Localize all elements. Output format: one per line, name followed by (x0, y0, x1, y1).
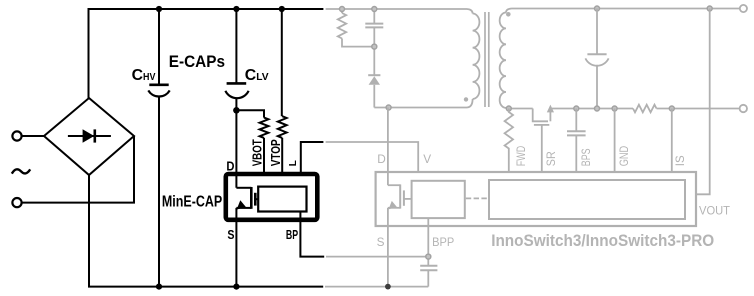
svg-text:VBOT: VBOT (250, 139, 265, 166)
svg-text:E-CAPs: E-CAPs (169, 52, 225, 71)
wire clamp R bottom (342, 39, 374, 47)
wire BP to BPP continuation (gray) (326, 256, 428, 258)
node drain junction ring (386, 105, 391, 110)
capacitor C_BPS top lead (575, 109, 577, 132)
capacitor C_BPS bottom lead (575, 135, 577, 172)
wire BP pin (black part) (300, 212, 324, 257)
bridge diode cathode bar (94, 129, 97, 142)
wire primary bottom line (374, 107, 467, 109)
capacitor C_HV bottom lead (158, 97, 160, 287)
capacitor C_OUT top lead (596, 9, 598, 55)
resistor R_FWD (505, 109, 513, 173)
capacitor clamp C bottom lead (373, 27, 375, 75)
node BPS junction ring (574, 106, 579, 111)
MinE-CAP control block (258, 187, 306, 212)
transistor Q2 source lead (549, 109, 551, 122)
transformer T1 secondary winding (506, 9, 512, 13)
transistor Q3 InnoSwitch internal MOSFET drain lead (388, 184, 400, 186)
output terminal - (740, 105, 747, 112)
capacitor C_OUT bottom lead (596, 65, 598, 109)
svg-text:D: D (377, 152, 386, 166)
diode clamp cathode bar (368, 74, 380, 76)
diode clamp triangle (369, 76, 380, 85)
svg-text:VTOP: VTOP (268, 139, 283, 166)
node C_LV bottom junction (233, 107, 240, 114)
svg-text:InnoSwitch3/InnoSwitch3-PRO: InnoSwitch3/InnoSwitch3-PRO (491, 231, 714, 250)
resistor R_IS (current sense) (633, 105, 657, 113)
wire top rail gray continuation (326, 8, 467, 10)
wire VTOP from top rail (281, 9, 283, 116)
bridge rectifier BR1 diamond (44, 98, 134, 175)
transistor Q3 source lead (388, 207, 400, 209)
transformer T1 core (484, 12, 486, 107)
transistor Q3 gate connection (404, 198, 412, 200)
resistor VBOT (260, 118, 269, 138)
resistor VTOP (278, 116, 287, 138)
transistor Q3 gate bar (403, 190, 405, 205)
wire secondary bottom rail segment 3 (657, 108, 740, 110)
node clamp R top ring (340, 7, 345, 12)
wire S pin to bottom rail (235, 208, 237, 287)
transistor Q1 source lead (236, 207, 251, 209)
capacitor clamp C plates (365, 23, 383, 25)
node clamp RC bottom ring (372, 44, 377, 49)
svg-text:MinE-CAP: MinE-CAP (162, 194, 222, 211)
transistor Q2 source arrow (547, 105, 554, 113)
transistor Q1 gate bar (254, 193, 257, 206)
wire L pin to drain node (black part) (301, 142, 324, 174)
AC input terminal 2 (12, 198, 21, 207)
node S / bottom rail junction (385, 284, 391, 290)
node top-rail / C_HV junction (156, 6, 162, 12)
node IS junction ring (669, 106, 674, 111)
wire IS pin (671, 109, 673, 173)
node VOUT feedback top ring (707, 6, 712, 11)
capacitor C_OUT positive plate (587, 53, 606, 55)
node clamp C top ring (372, 7, 377, 12)
wire secondary top rail (512, 8, 741, 10)
node output cap top ring (595, 6, 600, 11)
svg-text:BPS: BPS (581, 148, 593, 166)
capacitor C_LV bottom lead / D pin wire (235, 98, 237, 188)
transistor Q1 source arrow (237, 200, 246, 209)
svg-text:FWD: FWD (516, 146, 528, 166)
capacitor C_HV positive plate (149, 84, 168, 87)
transistor Q2 SR MOSFET drain path (533, 109, 548, 122)
transistor Q1 channel bar (250, 187, 253, 209)
capacitor clamp C top lead (373, 9, 375, 24)
wire secondary bottom rail segment 1 (511, 108, 533, 110)
bridge diode lead (68, 135, 111, 137)
node FWD junction ring (506, 106, 511, 111)
node BPP junction ring (426, 254, 431, 259)
capacitor C_LV curved plate (225, 91, 248, 98)
capacitor C_HV top lead (158, 9, 160, 85)
svg-text:VOUT: VOUT (699, 203, 730, 217)
op-amp U2 InnoSwitch3 IC box (376, 172, 696, 226)
svg-text:SR: SR (546, 151, 558, 166)
AC input terminal 1 (12, 131, 21, 140)
wire C_LV node to VBOT resistor (236, 110, 264, 117)
wire clamp diode to drain node line (373, 85, 375, 108)
node top-rail / C_LV junction (233, 6, 239, 12)
wire secondary bottom rail segment 2 (550, 108, 633, 110)
transistor Q1 MinE-CAP internal MOSFET drain lead (236, 187, 251, 189)
svg-text:S: S (227, 227, 234, 242)
wire InnoSwitch D pin (387, 108, 389, 186)
AC source tilde (12, 169, 30, 173)
node top-rail / VTOP junction (279, 6, 285, 12)
svg-text:S: S (377, 235, 385, 249)
capacitor C_LV positive plate (227, 82, 247, 85)
InnoSwitch secondary control block (489, 180, 685, 219)
svg-text:BPP: BPP (432, 235, 454, 249)
wire L to V continuation (gray) (326, 142, 419, 172)
node GND junction ring (612, 106, 617, 111)
node C_OUT bottom junction ring (595, 106, 600, 111)
transistor Q2 gate bar (534, 124, 549, 126)
transistor Q3 source arrow (389, 201, 397, 210)
transistor Q2 gate wire to SR pin (541, 125, 543, 172)
wire BPP pin (427, 218, 429, 265)
bridge diode triangle (83, 129, 95, 143)
wire GND pin (614, 109, 616, 173)
wire VBOT resistor to VBOT pin (263, 138, 265, 174)
wire top rail (black HV+ rail) (89, 9, 324, 98)
capacitor C_BPS plates (567, 130, 586, 132)
svg-text:D: D (226, 158, 234, 173)
capacitor C_LV top lead (235, 9, 237, 83)
transistor Q3 channel bar (399, 184, 401, 208)
transistor Q1 gate connection (255, 198, 258, 200)
capacitor C_BPP plates (420, 265, 437, 267)
wire S pin to gray bottom rail (387, 208, 389, 287)
capacitor C_OUT curved plate (585, 58, 608, 65)
InnoSwitch primary control block (412, 181, 465, 218)
wire VTOP resistor to VTOP pin (281, 138, 283, 174)
wire bridge bottom vertex to bottom rail (88, 175, 90, 287)
transformer T1 primary polarity dot (464, 97, 468, 101)
svg-text:L: L (288, 160, 299, 166)
node bottom-rail / C_HV junction (156, 284, 162, 290)
svg-text:IS: IS (675, 155, 687, 166)
wire bottom rail (black return rail) (88, 286, 323, 288)
dashed link between blocks (466, 197, 489, 199)
transformer T1 secondary polarity dot (506, 12, 511, 17)
svg-text:GND: GND (619, 146, 631, 166)
wire bottom rail gray continuation (325, 286, 428, 288)
resistor clamp R (338, 13, 346, 39)
wire AC2 to bridge right vertex (22, 136, 134, 203)
capacitor C_HV curved plate (148, 90, 169, 96)
transformer T1 primary winding (467, 9, 473, 14)
svg-text:BP: BP (286, 227, 298, 242)
svg-text:V: V (423, 152, 431, 166)
capacitor C_BPP bottom lead to rail (427, 270, 429, 286)
op-amp U1 MinE-CAP IC box (226, 174, 317, 220)
wire VOUT pin (696, 9, 710, 195)
wire AC1 to bridge left vertex (22, 135, 44, 137)
node bottom-rail / S junction (233, 284, 239, 290)
output terminal + (740, 5, 747, 12)
